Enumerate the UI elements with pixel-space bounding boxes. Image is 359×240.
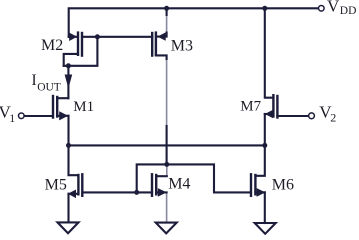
transistor M3 (PMOS) <box>152 8 166 59</box>
node V2 terminal <box>309 113 315 119</box>
label IOUT <box>32 72 61 93</box>
wire VDD top rail <box>69 8 319 37</box>
transistor M1 (NMOS) <box>24 96 68 145</box>
transistor M6 (NMOS) <box>251 145 265 223</box>
svg-text:M7: M7 <box>240 99 261 115</box>
wire M5 gate to M4 gate <box>82 191 152 193</box>
node V1 terminal <box>19 113 25 119</box>
node IOUT junction <box>66 63 71 68</box>
node gate rail junction <box>164 162 169 167</box>
label V2 <box>319 102 336 124</box>
ground below M6 <box>255 223 276 234</box>
wire IOUT with current arrow <box>65 66 73 98</box>
svg-text:2: 2 <box>330 111 336 125</box>
svg-text:M4: M4 <box>168 175 190 192</box>
node rail right junction <box>262 143 267 148</box>
label V1 <box>0 103 15 125</box>
svg-text:M1: M1 <box>73 99 94 115</box>
label VDD <box>327 0 356 17</box>
ground below M4 <box>156 223 177 234</box>
wire M3 drain down thin segment <box>166 58 168 128</box>
node M2 gate junction <box>95 34 100 39</box>
ground below M5 <box>58 222 79 233</box>
node rail left junction <box>66 143 71 148</box>
transistor M4 (NMOS diode connected) <box>152 174 167 196</box>
wire middle rail (sources of M1 M7) <box>69 144 265 146</box>
svg-text:M3: M3 <box>171 37 193 54</box>
wire M4 source thin segment <box>166 192 168 223</box>
svg-text:1: 1 <box>9 111 15 125</box>
wire M2 gate to M3 gate <box>97 36 152 38</box>
svg-text:DD: DD <box>340 5 357 17</box>
svg-text:M5: M5 <box>45 177 67 194</box>
wire M4 drain thin segment <box>166 164 168 177</box>
wire gate rail box <box>137 164 250 192</box>
wire M3 drain to gate rail <box>166 126 168 164</box>
wire M2 gate-drain diode connection <box>64 37 98 66</box>
node VDD terminal <box>319 6 325 12</box>
wire M3 source thin segment <box>166 14 168 34</box>
transistor M5 (NMOS) <box>68 145 82 222</box>
node junction top middle <box>164 6 169 11</box>
svg-text:OUT: OUT <box>37 81 61 93</box>
node junction top right <box>262 6 267 11</box>
svg-text:M6: M6 <box>272 177 294 194</box>
transistor M2 (PMOS) <box>64 33 98 66</box>
node gate wire junction <box>134 190 139 195</box>
svg-text:V: V <box>327 0 340 16</box>
svg-text:I: I <box>32 72 37 89</box>
transistor M7 (NMOS) <box>265 8 309 145</box>
svg-text:M2: M2 <box>41 37 63 54</box>
